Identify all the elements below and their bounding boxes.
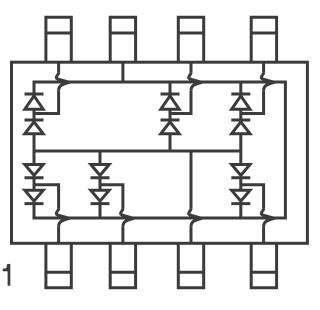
- pin 8 wire upper: [57, 62, 60, 72]
- wire D4 to mid bus: [169, 134, 172, 151]
- pin 5 wire upper: [262, 62, 265, 72]
- diode D5 (top stack at x=240.8, upper, cathode up): [231, 94, 250, 109]
- VCC bus ring wire: top bus, right vertical, bottom bus: [34, 82, 285, 218]
- pin 1 wire lower: [57, 226, 60, 243]
- pin 8 (top row) box: [46, 17, 71, 62]
- diode D8 (bottom stack, lower, cathode down): [25, 190, 44, 203]
- GND mid bus wire: [34, 150, 241, 153]
- pin 2 (bottom row) box: [110, 243, 135, 287]
- pin 1 label: [3, 264, 11, 286]
- package body outline U1: [12, 62, 308, 243]
- pin 6 wire upper: [190, 62, 193, 72]
- wire D7-D8: [33, 178, 36, 191]
- pin 2 wire lower: [121, 226, 124, 243]
- diode D3 (top stack at x=170, upper, cathode up): [161, 94, 180, 109]
- wire D3-D4: [169, 109, 172, 120]
- diode D6 (top stack, lower, cathode up): [231, 120, 250, 134]
- wire mid bus to D11: [239, 151, 242, 165]
- wire D1-D2: [33, 109, 36, 120]
- wire D9-D10: [99, 178, 102, 191]
- wire D10 to bottom bus: [99, 204, 102, 218]
- hop of pin 3 wire over bottom bus: [189, 209, 202, 227]
- wire D5-D6: [239, 109, 242, 120]
- diode D11 (bottom stack at x=240.8, upper, cathode down): [231, 165, 250, 178]
- hop of pin 4 wire over bottom bus: [261, 209, 274, 227]
- pin 4 wire upper to diode junction: [241, 185, 264, 209]
- hop of pin 5 wire over top bus: [261, 73, 274, 91]
- pin 3 wire lower: [190, 226, 193, 243]
- diode D4 (top stack, lower, cathode up): [161, 120, 180, 134]
- wire: top bus drop to D7/D8 stack: [239, 82, 242, 94]
- wire D6 to mid bus: [239, 134, 242, 151]
- pin 7 (top row) box: [110, 17, 135, 62]
- diode D1 (top stack at x=34, upper, cathode up): [25, 94, 44, 109]
- diode D2 (top stack, lower, cathode up): [25, 120, 44, 134]
- pin 5 (top row) box: [251, 17, 276, 62]
- diode D12 (bottom stack, lower, cathode down): [231, 190, 250, 203]
- hop of pin 6 wire over top bus: [189, 73, 202, 91]
- diode D7 (bottom stack at x=34, upper, cathode down): [25, 165, 44, 178]
- pin 4 (bottom row) box: [251, 243, 276, 287]
- hop of pin 2 wire over bottom bus: [121, 209, 134, 227]
- hop of pin 8 wire over top bus: [56, 73, 69, 91]
- pin 6 wire lower to diode junction: [170, 90, 191, 113]
- wire mid bus to D7: [33, 151, 36, 165]
- wire D11-D12: [239, 178, 242, 191]
- wire D2 to mid bus: [33, 134, 36, 151]
- pin 2 wire upper to diode junction: [100, 185, 123, 209]
- pin 3 wire upper to mid bus: [190, 151, 193, 209]
- wire mid bus to D9: [99, 151, 102, 165]
- wire D12 to bottom bus: [239, 204, 242, 218]
- pin 1 (bottom row) box: [46, 243, 71, 287]
- hop of pin 1 wire over bottom bus: [56, 209, 69, 227]
- wire: top bus drop to D5/D6 stack: [169, 82, 172, 94]
- pin 1 wire upper to diode junction: [34, 185, 59, 209]
- pin 5 wire lower to diode junction: [241, 90, 264, 113]
- pin 7 wire joining top bus: [121, 62, 124, 82]
- diode D10 (bottom stack, lower, cathode down): [91, 190, 110, 203]
- wire D8 to bottom bus: [33, 204, 36, 218]
- pin 8 wire lower to diode junction: [34, 90, 59, 113]
- pin 6 (top row) box: [178, 17, 203, 62]
- diode D9 (bottom stack at x=100, upper, cathode down): [91, 165, 110, 178]
- pin 4 wire lower: [262, 226, 265, 243]
- pin 3 (bottom row) box: [178, 243, 203, 287]
